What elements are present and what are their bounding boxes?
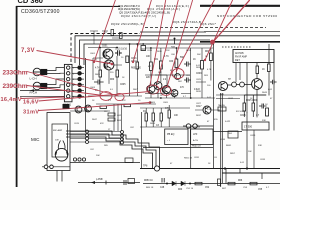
svg-text:R650 1K: R650 1K	[144, 180, 153, 182]
svg-text:C629: C629	[250, 135, 256, 137]
comp right col	[266, 108, 269, 116]
svg-text:R66: R66	[238, 180, 243, 182]
svg-text:C619: C619	[74, 123, 80, 125]
RCA jack R-CH	[33, 82, 47, 90]
svg-text:10K: 10K	[248, 151, 252, 153]
resistor R41	[100, 106, 107, 108]
vertical x141	[141, 112, 143, 169]
svg-text:2.2K: 2.2K	[207, 109, 212, 111]
section divider vertical	[213, 44, 215, 169]
svg-text:C631: C631	[194, 157, 200, 159]
capacitor C611	[184, 62, 191, 67]
svg-text:D60: D60	[178, 189, 183, 191]
svg-text:C601: C601	[90, 53, 96, 55]
resistor R33	[243, 103, 246, 111]
line y147	[143, 147, 213, 149]
svg-text:R655 1K: R655 1K	[192, 146, 201, 148]
red leader 239Ohm	[27, 86, 103, 96]
red diagonal 2	[133, 0, 151, 62]
svg-text:p-PMF: p-PMF	[96, 179, 103, 181]
red oval O4	[115, 93, 124, 100]
resistor R44	[152, 113, 154, 121]
resistor R604	[116, 70, 119, 77]
wire vertical x129	[129, 44, 131, 96]
bus y183 left	[78, 182, 140, 184]
svg-text:#Q02 2SC1740(T,U): #Q02 2SC1740(T,U)	[121, 14, 156, 18]
pin wire 4	[72, 84, 84, 86]
diode D1	[172, 181, 176, 186]
capacitor C603	[94, 80, 104, 85]
component list text	[111, 4, 277, 26]
right strip labels	[196, 67, 212, 127]
connector pin 6	[67, 95, 70, 98]
transistor Q605	[147, 85, 155, 93]
IC box	[233, 50, 274, 63]
bus y168	[140, 168, 280, 170]
small box right mid2	[228, 131, 238, 138]
junction dots bottom	[166, 167, 248, 184]
pin numbers	[73, 68, 75, 99]
red oval O5	[100, 92, 112, 101]
svg-text:56K: 56K	[197, 54, 201, 56]
speckle labels	[74, 50, 273, 165]
staircase bus 1	[66, 131, 160, 169]
svg-text:C605: C605	[163, 102, 169, 104]
transistor Q7	[252, 79, 263, 90]
resistor R45	[160, 113, 162, 121]
red oval O3	[161, 87, 172, 96]
bus line 2	[75, 36, 280, 63]
box right mid	[242, 122, 269, 130]
svg-text:C615 10/16: C615 10/16	[115, 49, 128, 51]
transistor Q9	[85, 105, 92, 112]
svg-text:10K: 10K	[174, 115, 179, 117]
resistor R601 labels	[131, 58, 142, 70]
svg-text:4.7K: 4.7K	[164, 56, 169, 58]
svg-text:47K: 47K	[122, 100, 126, 102]
transistor Q607	[163, 86, 171, 94]
short dashes right	[222, 46, 252, 48]
wires circle col2	[89, 132, 121, 143]
svg-text:TP8: TP8	[143, 165, 148, 168]
labels right	[228, 69, 265, 117]
svg-text:R625 100K: R625 100K	[246, 100, 258, 102]
red leader 16,6V	[39, 92, 151, 102]
svg-text:2SC: 2SC	[148, 92, 153, 94]
svg-text:1K: 1K	[193, 59, 196, 61]
component under bus	[141, 46, 146, 51]
phone jack	[218, 81, 227, 90]
small circles bottom-left	[73, 158, 85, 161]
red diagonal 1	[94, 0, 115, 62]
svg-text:PB EQ: PB EQ	[167, 133, 174, 136]
svg-text:R0B: R0B	[171, 47, 176, 49]
solder dot 6	[77, 94, 81, 98]
transistor Q606	[154, 82, 162, 90]
labels cluster2	[146, 51, 210, 91]
svg-text:TA.455: TA.455	[218, 104, 226, 107]
resistor R42	[124, 104, 131, 106]
svg-text:10K: 10K	[146, 56, 151, 58]
svg-text:#Q02 2SC2458(L,B): #Q02 2SC2458(L,B)	[111, 22, 144, 26]
svg-text:R605: R605	[95, 74, 101, 76]
svg-text:R611: R611	[157, 51, 163, 53]
svg-text:C605: C605	[120, 84, 126, 86]
transistor Q601	[103, 49, 113, 59]
junction dots bus4	[99, 43, 138, 48]
frame top border right (heavy)	[200, 5, 280, 7]
svg-text:R643: R643	[262, 92, 268, 94]
capacitor C31	[259, 104, 267, 109]
RCA jack L-CH	[33, 68, 47, 76]
svg-text:C51 10: C51 10	[186, 188, 194, 190]
svg-text:R60: R60	[110, 79, 115, 81]
svg-text:4.7K: 4.7K	[95, 68, 100, 70]
test point TP2	[240, 82, 245, 87]
resistor on bus B	[120, 33, 123, 39]
connector stem	[85, 58, 87, 104]
caps bottom c48	[162, 178, 164, 183]
transistor Q608	[171, 90, 178, 97]
verticals below MIC	[57, 171, 62, 182]
svg-text:R1 100K: R1 100K	[236, 111, 245, 113]
cap on bus left	[124, 180, 126, 185]
TP circle on bus	[154, 166, 159, 171]
connector pin 5	[67, 89, 70, 92]
MIC capsule	[55, 141, 68, 162]
red dot 7,3V	[111, 63, 114, 66]
pad left	[91, 181, 95, 184]
red dot diag1	[93, 61, 95, 63]
box bottom left	[128, 179, 135, 184]
line y162	[70, 162, 140, 164]
pin wire 3	[72, 78, 84, 80]
transistor Q10	[203, 106, 211, 114]
svg-text:C60: C60	[169, 61, 174, 63]
right side labels	[214, 104, 268, 159]
coupler circles	[186, 124, 197, 128]
staircase bus 3	[66, 137, 153, 169]
svg-text:C625: C625	[196, 79, 202, 81]
frame top border left	[16, 5, 120, 7]
svg-text:1T 300: 1T 300	[244, 125, 253, 129]
svg-text:R635: R635	[196, 91, 202, 93]
svg-text:OO: OO	[141, 47, 145, 51]
resistor R613	[150, 62, 153, 71]
capacitor C612	[184, 78, 191, 83]
svg-text:31mV: 31mV	[23, 110, 39, 116]
svg-text:16,6V: 16,6V	[23, 100, 39, 106]
dark pad left mid	[63, 104, 70, 109]
svg-text:R661: R661	[226, 145, 232, 147]
wire jacks to connector	[20, 68, 64, 97]
bus drops	[226, 112, 262, 184]
svg-text:R609: R609	[150, 102, 156, 104]
wires right	[221, 44, 274, 187]
svg-text:R655 1K: R655 1K	[184, 158, 193, 160]
red dot diag7	[204, 59, 206, 61]
svg-text:R637: R637	[196, 115, 202, 117]
solder dot 4	[77, 83, 81, 87]
svg-text:C55: C55	[258, 189, 263, 191]
MIC box outline	[47, 113, 70, 171]
svg-text:C601: C601	[102, 46, 108, 48]
vert x254	[253, 130, 255, 169]
pin wire 1	[72, 67, 84, 69]
circle column 2	[121, 131, 124, 145]
red leader 31mV	[39, 109, 71, 111]
cluster box labels	[104, 111, 122, 122]
svg-text:C627: C627	[196, 103, 202, 105]
resistor R603	[99, 70, 102, 77]
resistor R46	[168, 110, 170, 118]
shield box dashed	[71, 34, 140, 63]
junction dots c2	[150, 47, 192, 99]
wire y93.6	[145, 93, 178, 95]
labels bottom	[96, 179, 263, 191]
svg-text:1K: 1K	[262, 69, 265, 71]
red diagonal 8	[213, 0, 250, 42]
bottom tiny text row	[146, 187, 270, 190]
staircase bus 2	[66, 134, 156, 169]
capacitor C615	[115, 50, 122, 56]
svg-text:MIC: MIC	[31, 137, 40, 142]
svg-text:#Q6 2SC1740A,B: #Q6 2SC1740A,B	[173, 20, 201, 24]
svg-text:R633: R633	[196, 67, 202, 69]
svg-text:R619: R619	[186, 50, 192, 52]
svg-text:R65 1K: R65 1K	[146, 187, 154, 189]
pin wire 5	[72, 90, 84, 92]
svg-text:C48: C48	[160, 187, 165, 189]
svg-text:DET: DET	[235, 59, 240, 62]
svg-text:C613: C613	[147, 50, 153, 52]
MIC pad circles	[44, 165, 48, 169]
svg-text:CD360/5TZ900: CD360/5TZ900	[21, 9, 60, 15]
connector pin 3	[67, 77, 70, 80]
svg-text:22K: 22K	[166, 50, 170, 52]
svg-text:C615: C615	[240, 115, 246, 117]
resistor RB3	[250, 182, 257, 185]
svg-text:10K: 10K	[158, 72, 162, 74]
solder dot 2	[77, 71, 81, 75]
svg-text:233Ohm: 233Ohm	[3, 70, 28, 77]
red diagonal 3	[150, 0, 166, 85]
svg-text:47K: 47K	[165, 108, 170, 110]
resistor R614	[160, 61, 163, 69]
wires cluster2	[145, 48, 215, 98]
MIC inner box	[52, 124, 68, 157]
svg-text:C617: C617	[196, 106, 202, 108]
resistor R32	[268, 64, 271, 72]
frame left border	[16, 6, 18, 187]
stem extension	[85, 104, 87, 132]
test point TP1	[232, 82, 237, 87]
resistor RB2	[228, 182, 235, 185]
svg-text:MIC AMP: MIC AMP	[53, 129, 63, 132]
red dot diag2	[132, 61, 134, 63]
pin wire 2	[72, 72, 84, 74]
labels cluster1	[95, 46, 126, 93]
bus line 4	[84, 44, 214, 65]
component in oval O1	[175, 74, 181, 80]
connector pin 2	[67, 72, 70, 75]
component TA455	[218, 107, 226, 111]
svg-text:R653: R653	[150, 123, 156, 125]
red dot diag8	[210, 40, 215, 45]
pin wire 6	[72, 95, 84, 97]
solder dot 5	[77, 88, 81, 92]
comp cluster x219	[218, 179, 221, 186]
resistor RB1	[195, 182, 202, 185]
IC box text	[235, 52, 247, 62]
tick bottom left	[105, 181, 107, 185]
resistor R605	[136, 62, 139, 69]
line mid right	[213, 131, 242, 133]
wire y75	[145, 74, 190, 76]
connector pin 1	[67, 66, 70, 69]
resistor R615	[175, 59, 178, 68]
svg-text:R657: R657	[230, 153, 236, 155]
bus y173	[222, 172, 280, 174]
heavy bus right	[200, 41, 280, 43]
connector pin 4	[67, 83, 70, 86]
stub component	[174, 39, 176, 45]
box on y162	[125, 158, 133, 163]
solder dot 3	[77, 77, 81, 81]
resistor R43	[145, 113, 147, 121]
resistor R601	[126, 56, 129, 63]
red leader 233Ohm	[27, 72, 119, 97]
svg-text:C609: C609	[196, 73, 202, 75]
red oval O1	[172, 69, 184, 79]
wires row3b	[140, 105, 220, 127]
right wires extra	[216, 63, 266, 99]
resistor on bus A	[111, 30, 114, 36]
svg-text:22K: 22K	[146, 77, 151, 79]
svg-text:C633: C633	[260, 159, 266, 161]
svg-text:R647: R647	[92, 119, 98, 121]
svg-text:C603: C603	[90, 87, 96, 89]
vertical x190 ext	[190, 127, 192, 169]
red leader 16,4mV	[21, 97, 64, 99]
svg-text:16,4mV: 16,4mV	[1, 97, 22, 103]
blocks on row y131	[165, 129, 188, 145]
bus dashed right	[145, 27, 266, 29]
bus line 5	[204, 31, 280, 33]
svg-text:0.022: 0.022	[225, 121, 231, 123]
inner content nested box	[90, 31, 120, 44]
wires cluster1	[88, 44, 142, 96]
resistor R617	[210, 53, 213, 61]
solder dot 1	[77, 65, 81, 69]
red line mid	[70, 103, 150, 109]
svg-text:L-CH: L-CH	[30, 76, 37, 80]
transistor Q602	[104, 60, 114, 70]
bus line 3	[80, 40, 211, 65]
svg-text:239Ohm: 239Ohm	[3, 83, 28, 90]
red diagonal 6	[176, 0, 214, 72]
diode D2	[181, 181, 185, 186]
block 2 row y131	[191, 129, 214, 145]
MIC conn circles	[86, 130, 89, 144]
red diagonal 4	[157, 0, 178, 83]
cap far right	[270, 80, 277, 85]
MIC wires	[70, 132, 86, 143]
red diagonal 5	[167, 0, 193, 87]
svg-text:47K: 47K	[100, 123, 104, 125]
MIC pad line	[42, 166, 70, 168]
svg-text:CD 360: CD 360	[18, 0, 43, 5]
svg-text:C616: C616	[220, 139, 226, 141]
coupler wires	[183, 125, 213, 127]
labels row3	[143, 106, 202, 127]
bus y183 right	[143, 183, 280, 185]
resistor R31	[256, 66, 259, 74]
resistor R616	[201, 61, 204, 70]
svg-text:A.TH: A.TH	[193, 139, 198, 142]
red diagonal 7	[205, 0, 233, 60]
svg-text:4.7K: 4.7K	[207, 69, 212, 71]
transistor Q8	[75, 106, 82, 113]
mic input arrow	[30, 89, 35, 92]
red dot 31mV	[149, 101, 152, 104]
svg-text:C52: C52	[205, 187, 210, 189]
svg-text:TP: TP	[228, 79, 231, 81]
svg-text:33K: 33K	[258, 145, 262, 147]
cluster boxes over MIC	[108, 113, 115, 116]
resistor R34	[252, 103, 255, 111]
svg-text:10K: 10K	[96, 155, 100, 157]
svg-text:33K: 33K	[262, 120, 266, 122]
wires row3	[70, 104, 156, 131]
red leader 7,3V	[37, 51, 113, 65]
bus line 6	[140, 31, 206, 33]
svg-text:LPF: LPF	[193, 133, 198, 136]
connector CN601 outline	[64, 64, 72, 101]
svg-text:R607: R607	[133, 89, 139, 91]
svg-text:7,3V: 7,3V	[21, 48, 35, 54]
red oval O2	[147, 85, 159, 94]
